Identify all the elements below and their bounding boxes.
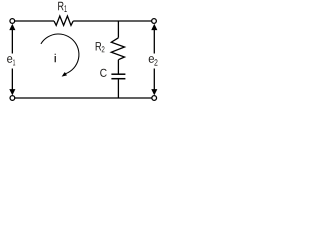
wire top-left xyxy=(15,20,54,22)
e1 arrowhead down xyxy=(9,89,15,95)
e2 arrow line lower xyxy=(153,69,155,92)
label R1.R xyxy=(58,2,63,10)
label e2.2 xyxy=(154,59,157,65)
label R2.R xyxy=(96,42,102,50)
label e2.e xyxy=(149,56,154,63)
e2 arrow line upper xyxy=(153,28,155,54)
label e1.1 xyxy=(13,60,15,66)
wire top-right xyxy=(73,20,151,22)
e1 arrow line lower xyxy=(11,69,13,92)
wire R2 top lead xyxy=(117,21,119,38)
e1 arrow line upper xyxy=(11,28,13,54)
e1 arrowhead up xyxy=(9,24,15,30)
terminal bottom-right xyxy=(152,96,157,101)
current arrow arrowhead xyxy=(62,72,67,77)
label i xyxy=(55,54,56,63)
label e1.e xyxy=(7,56,12,63)
terminal top-left xyxy=(10,19,15,24)
terminal top-right xyxy=(152,19,157,24)
resistor R1 xyxy=(54,16,73,25)
wire bottom xyxy=(15,97,152,99)
resistor R2 xyxy=(111,38,124,60)
label R1.1 xyxy=(64,5,66,12)
terminal bottom-left xyxy=(10,96,15,101)
wire C bottom lead xyxy=(117,79,119,98)
capacitor C plates xyxy=(111,73,125,75)
e2 arrowhead down xyxy=(151,89,157,95)
wire R2 to C xyxy=(117,60,119,74)
label R2.2 xyxy=(102,46,105,52)
e2 arrowhead up xyxy=(151,24,157,30)
current loop arc i xyxy=(41,34,79,74)
label C xyxy=(100,69,107,77)
